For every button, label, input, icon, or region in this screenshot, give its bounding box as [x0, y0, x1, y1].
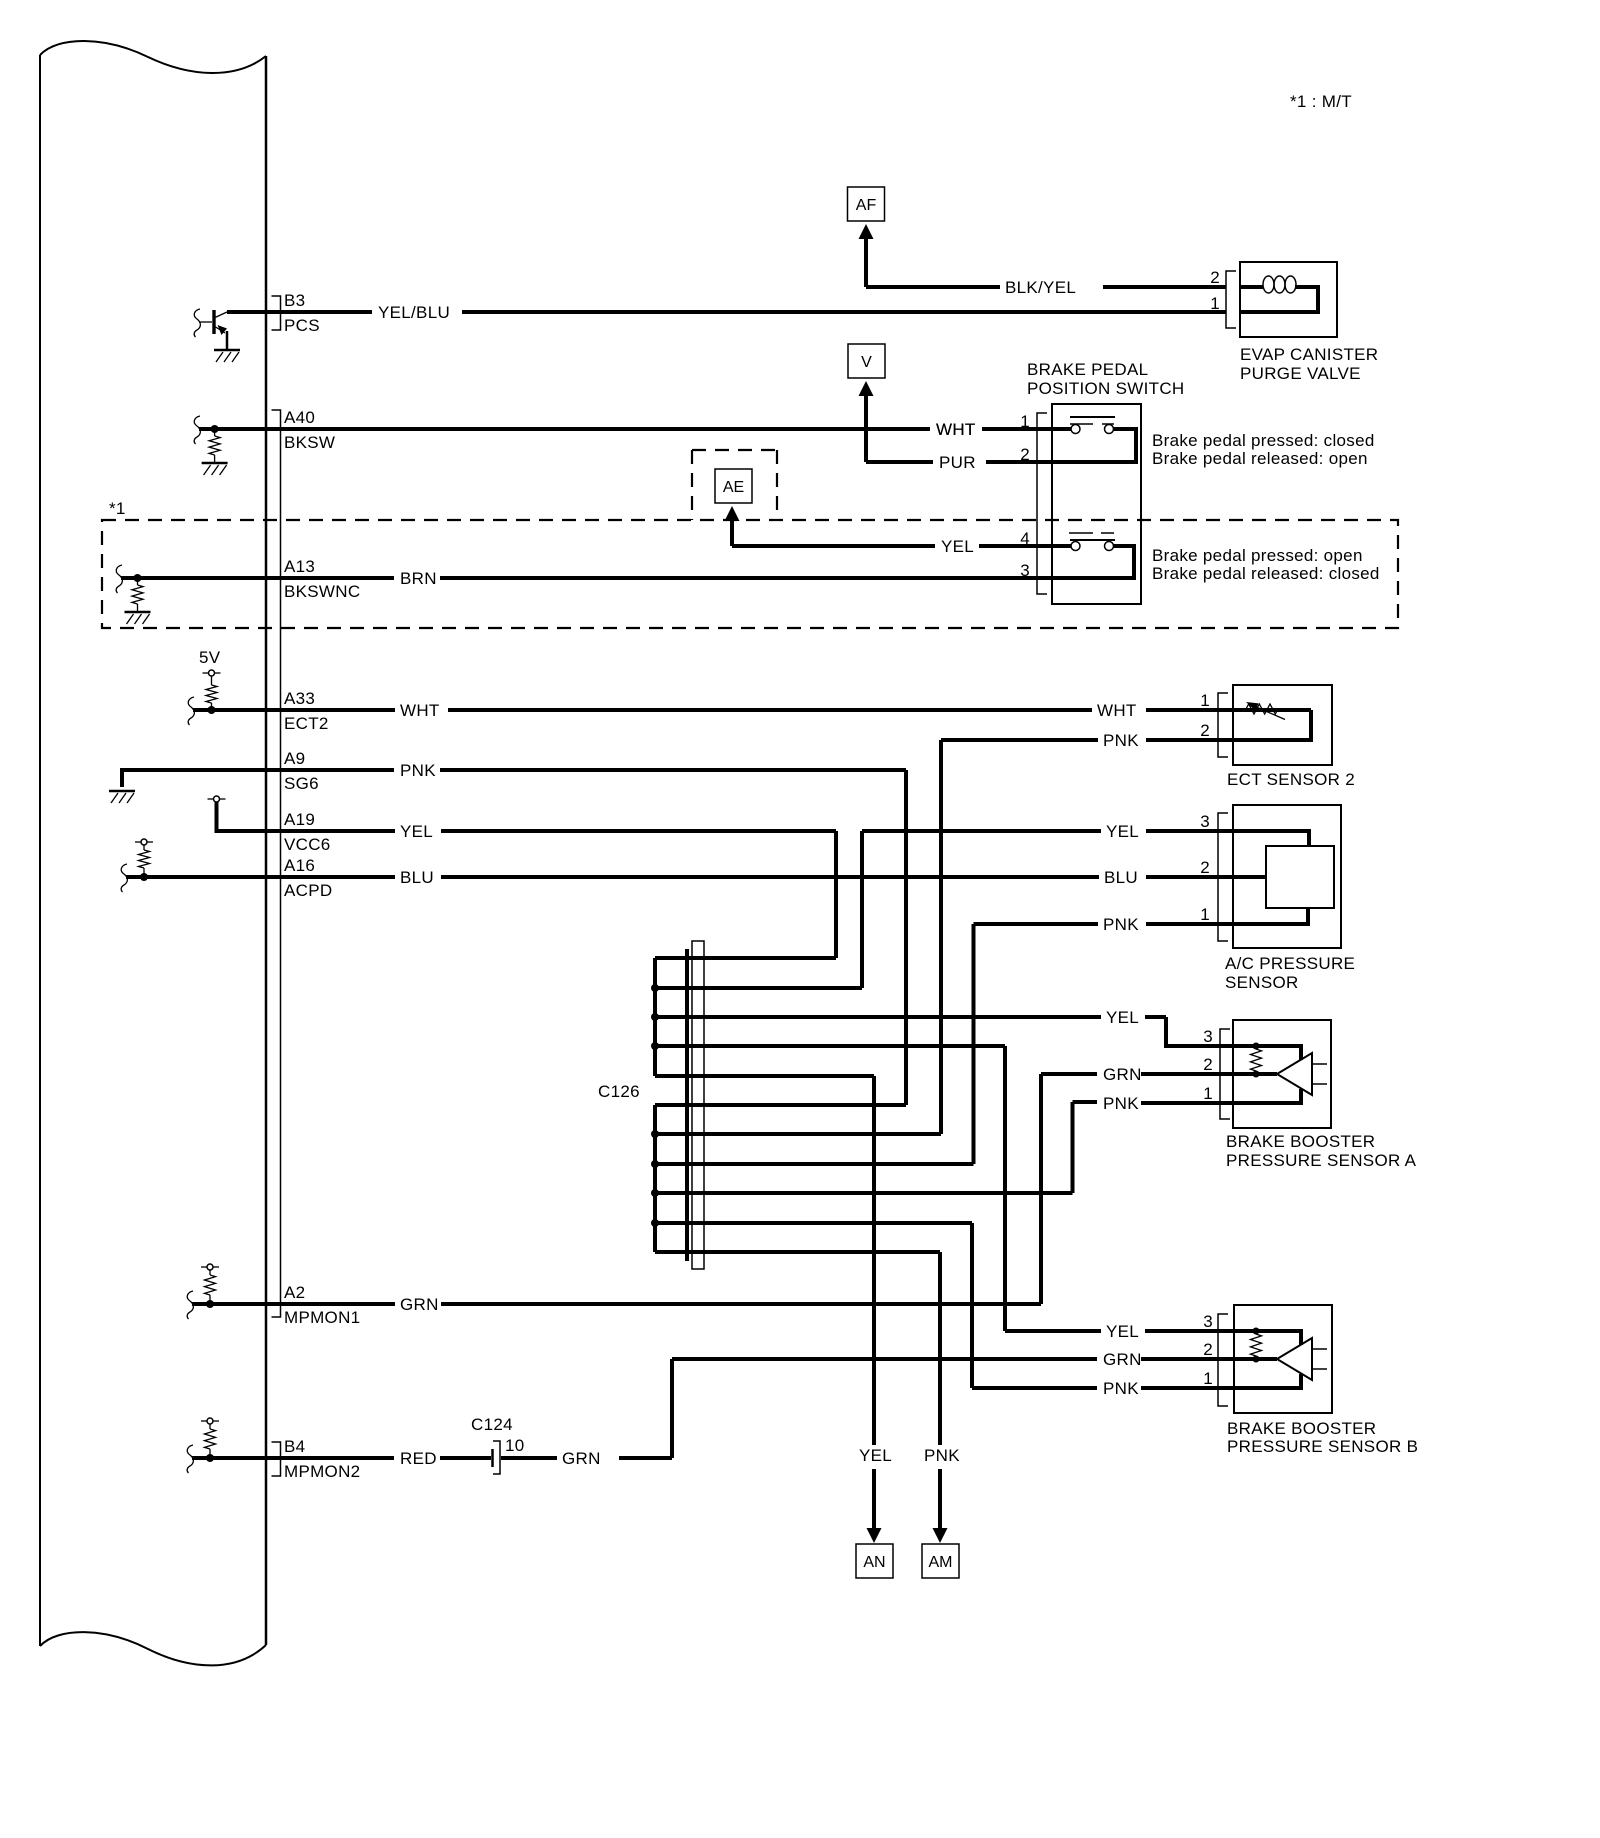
wire YEL from C126 to brake booster pressure sensor B pin 3 — [655, 1046, 1234, 1331]
label BRN — [400, 569, 437, 588]
wire YEL from C126 to brake booster pressure sensor A pin 3 — [655, 1017, 1233, 1046]
svg-text:PCS: PCS — [284, 316, 320, 335]
wire stub C126 to A9 PNK — [655, 1103, 906, 1107]
wire A13 BKSWNC BRN — [280, 576, 1070, 580]
svg-text:PRESSURE SENSOR A: PRESSURE SENSOR A — [1226, 1151, 1417, 1170]
svg-text:PUR: PUR — [939, 453, 976, 472]
svg-text:POSITION SWITCH: POSITION SWITCH — [1027, 379, 1185, 398]
svg-text:A40: A40 — [284, 408, 315, 427]
svg-text:1: 1 — [1200, 905, 1210, 924]
dashed enclosure around AE reference — [692, 450, 777, 520]
pin label A9 / SG6 — [284, 749, 319, 793]
note *1 : M/T — [1290, 92, 1352, 111]
svg-text:3: 3 — [1203, 1312, 1213, 1331]
svg-text:PNK: PNK — [1103, 915, 1139, 934]
note: upper contact behavior — [1152, 431, 1375, 468]
svg-text:*1: *1 — [109, 499, 126, 518]
svg-text:WHT: WHT — [400, 701, 440, 720]
label PUR — [939, 453, 976, 472]
label BLK/YEL — [1005, 278, 1076, 297]
svg-text:BRAKE PEDAL: BRAKE PEDAL — [1027, 360, 1148, 379]
svg-text:ECT2: ECT2 — [284, 714, 329, 733]
svg-text:AF: AF — [856, 197, 877, 214]
wire stub C126 to ECT sensor 2 PNK — [655, 1132, 941, 1136]
dashed enclosure *1 (M/T only circuit) — [102, 520, 1398, 628]
pull-up at A2 — [201, 1264, 219, 1304]
svg-text:A16: A16 — [284, 856, 315, 875]
wire PNK from A/C sensor pin 1 to C126 — [974, 924, 1234, 1164]
wire YEL from C126 down to AN reference — [655, 1076, 874, 1445]
wire stub C126 to A/C sensor YEL — [655, 986, 862, 990]
off-page reference AF — [848, 187, 885, 287]
svg-text:2: 2 — [1203, 1055, 1213, 1074]
svg-text:10: 10 — [505, 1436, 525, 1455]
label BRAKE PEDAL POSITION SWITCH — [1027, 360, 1185, 398]
pin label A33 / ECT2 — [284, 689, 329, 733]
svg-text:A33: A33 — [284, 689, 315, 708]
label WHT (ECT sensor side) — [1097, 701, 1137, 720]
svg-text:ECT SENSOR 2: ECT SENSOR 2 — [1227, 770, 1355, 789]
pin number 1 (EVAP valve) — [1210, 294, 1220, 313]
svg-text:YEL: YEL — [400, 822, 433, 841]
label YEL (A/C sensor side) — [1106, 822, 1139, 841]
svg-text:Brake pedal pressed: closed: Brake pedal pressed: closed — [1152, 431, 1375, 450]
wire PNK from C126 down to AM reference — [655, 1252, 940, 1445]
svg-text:ACPD: ACPD — [284, 881, 332, 900]
pin label A40 / BKSW — [284, 408, 335, 452]
pin label B4 / MPMON2 — [284, 1437, 360, 1481]
wire GRN from C124 to brake booster pressure sensor B pin 2 — [501, 1359, 1234, 1458]
svg-text:YEL/BLU: YEL/BLU — [378, 303, 450, 322]
pull-up resistor at A13 — [116, 565, 280, 612]
5V reference source at A33 — [199, 648, 221, 710]
svg-text:YEL: YEL — [1106, 1008, 1139, 1027]
svg-text:A13: A13 — [284, 557, 315, 576]
label YEL (A19) — [400, 822, 433, 841]
wire PUR from V node to switch pin 2 — [866, 460, 1037, 464]
svg-text:GRN: GRN — [562, 1449, 601, 1468]
svg-text:GRN: GRN — [1103, 1350, 1142, 1369]
brake booster pressure sensor B body — [1234, 1305, 1332, 1413]
svg-text:BLU: BLU — [1104, 868, 1138, 887]
svg-text:VCC6: VCC6 — [284, 835, 331, 854]
pin number 4 (switch) — [1020, 529, 1030, 548]
svg-text:1: 1 — [1210, 294, 1220, 313]
svg-text:PNK: PNK — [1103, 1094, 1139, 1113]
pin number 2 (EVAP valve) — [1210, 268, 1220, 287]
label GRN (booster B side) — [1103, 1350, 1142, 1369]
wire PNK from ECT sensor 2 pin 2 to C126 — [941, 740, 1233, 1134]
pull-up at A16 — [135, 839, 153, 877]
pin label A19 / VCC6 — [284, 810, 331, 854]
label EVAP CANISTER PURGE VALVE — [1240, 345, 1378, 383]
svg-text:V: V — [861, 354, 872, 371]
pin number 2 (booster sensor A) — [1203, 1055, 1213, 1074]
svg-text:BRN: BRN — [400, 569, 437, 588]
ground (A9 sensor ground) — [109, 791, 135, 803]
pin label A2 / MPMON1 — [284, 1283, 360, 1327]
svg-text:AM: AM — [929, 1554, 953, 1571]
label YEL/BLU — [378, 303, 450, 322]
pin number 2 (ECT sensor 2) — [1200, 721, 1210, 740]
EVAP canister purge valve (solenoid) — [1240, 262, 1337, 337]
connector bracket of EVAP canister purge valve — [1226, 271, 1236, 328]
long connector bracket pins A40..A2 — [272, 410, 281, 1317]
svg-text:SG6: SG6 — [284, 774, 319, 793]
svg-text:*1 : M/T: *1 : M/T — [1290, 92, 1352, 111]
brake booster pressure sensor A body — [1233, 1020, 1331, 1128]
off-page reference AN — [856, 1469, 893, 1578]
wire stub C126 to A/C sensor PNK — [655, 1162, 974, 1166]
pin number 2 (booster sensor B) — [1203, 1340, 1213, 1359]
svg-text:EVAP CANISTER: EVAP CANISTER — [1240, 345, 1378, 364]
junction bus (lower wire group at C126) — [651, 1105, 659, 1252]
connector bracket of brake booster pressure sensor B — [1218, 1314, 1228, 1406]
wire A33 ECT2 WHT — [188, 697, 1233, 725]
svg-text:Brake pedal released: open: Brake pedal released: open — [1152, 449, 1368, 468]
svg-text:PRESSURE SENSOR B: PRESSURE SENSOR B — [1227, 1437, 1418, 1456]
svg-text:YEL: YEL — [1106, 1322, 1139, 1341]
wire GRN from A2 to booster sensor A pin 2 — [1141, 1072, 1233, 1076]
svg-text:1: 1 — [1200, 691, 1210, 710]
label BRAKE BOOSTER PRESSURE SENSOR B — [1227, 1419, 1418, 1456]
wire YEL from AE node to switch pin 4 — [732, 544, 1037, 548]
pin label A16 / ACPD — [284, 856, 332, 900]
label PNK (booster A side) — [1103, 1094, 1139, 1113]
wire B4 MPMON2 RED — [187, 1445, 491, 1473]
connector bracket of A/C pressure sensor — [1218, 813, 1228, 941]
svg-text:BLK/YEL: BLK/YEL — [1005, 278, 1076, 297]
switch contact (normally closed, pins 4-3) — [1037, 533, 1134, 578]
svg-text:MPMON1: MPMON1 — [284, 1308, 360, 1327]
label ECT SENSOR 2 — [1227, 770, 1355, 789]
svg-text:A9: A9 — [284, 749, 305, 768]
wire A40 BKSW WHT — [280, 427, 1070, 431]
svg-text:3: 3 — [1020, 561, 1030, 580]
connector bracket of brake booster pressure sensor A — [1220, 1029, 1230, 1119]
pin number 3 (A/C sensor) — [1200, 812, 1210, 831]
svg-text:AE: AE — [723, 479, 744, 496]
svg-text:YEL: YEL — [941, 537, 974, 556]
svg-text:A19: A19 — [284, 810, 315, 829]
svg-text:3: 3 — [1200, 812, 1210, 831]
pin label B3 / PCS — [284, 291, 320, 335]
svg-text:Brake pedal released: closed: Brake pedal released: closed — [1152, 564, 1380, 583]
wire PNK from C126 to brake booster pressure sensor A pin 1 — [655, 1102, 1233, 1193]
pin number 3 (booster sensor B) — [1203, 1312, 1213, 1331]
svg-text:1: 1 — [1203, 1084, 1213, 1103]
svg-text:C126: C126 — [598, 1082, 640, 1101]
svg-text:3: 3 — [1203, 1027, 1213, 1046]
svg-text:WHT: WHT — [936, 420, 976, 439]
svg-text:YEL: YEL — [1106, 822, 1139, 841]
off-page reference V — [848, 344, 885, 462]
label PNK (ECT sensor side) — [1103, 731, 1139, 750]
connector C126 — [598, 941, 704, 1269]
svg-text:PURGE VALVE: PURGE VALVE — [1240, 364, 1361, 383]
label YEL (booster B side) — [1106, 1322, 1139, 1341]
svg-text:1: 1 — [1020, 412, 1030, 431]
wire A9 SG6 PNK — [122, 770, 906, 1105]
label PNK (A9) — [400, 761, 436, 780]
svg-text:MPMON2: MPMON2 — [284, 1462, 360, 1481]
ground (A40 resistor) — [202, 463, 228, 475]
switch contact (normally open, pins 1-2) — [1037, 417, 1136, 462]
svg-text:PNK: PNK — [924, 1446, 960, 1465]
label A/C PRESSURE SENSOR — [1225, 954, 1355, 992]
svg-text:C124: C124 — [471, 1415, 513, 1434]
svg-text:2: 2 — [1200, 721, 1210, 740]
label *1 — [109, 499, 126, 518]
svg-text:SENSOR: SENSOR — [1225, 973, 1299, 992]
pin number 3 (booster sensor A) — [1203, 1027, 1213, 1046]
label GRN (after C124) — [562, 1449, 601, 1468]
note: lower contact behavior — [1152, 546, 1380, 583]
wire A16 ACPD BLU — [121, 864, 1233, 892]
wire A19 VCC6 YEL — [217, 802, 837, 958]
pin number 1 (booster sensor A) — [1203, 1084, 1213, 1103]
label BLU (A16 left) — [400, 868, 434, 887]
ECT sensor 2 (thermistor) — [1233, 685, 1332, 765]
label PNK (A/C sensor pin 1) — [1103, 915, 1139, 934]
connector bracket for pin B4 — [272, 1442, 281, 1476]
label GRN (booster A side) — [1103, 1065, 1142, 1084]
svg-text:BKSWNC: BKSWNC — [284, 582, 360, 601]
label PNK (booster B side) — [1103, 1379, 1139, 1398]
wire BLK/YEL to EVAP canister purge valve pin 2 — [866, 285, 1226, 289]
svg-text:BRAKE BOOSTER: BRAKE BOOSTER — [1227, 1419, 1376, 1438]
svg-text:5V: 5V — [199, 648, 221, 667]
transistor Q1 (PCS low-side driver inside ECM) — [194, 309, 227, 350]
brake pedal position switch body — [1052, 404, 1141, 604]
svg-text:2: 2 — [1210, 268, 1220, 287]
wire YEL from A/C sensor pin 3 to C126 — [862, 831, 1233, 988]
ECM/PCM body outline (wavy-ended rectangle) — [40, 41, 266, 1665]
label BRAKE BOOSTER PRESSURE SENSOR A — [1226, 1132, 1417, 1170]
svg-text:GRN: GRN — [400, 1295, 439, 1314]
junction bus (upper wire group at C126) — [651, 958, 659, 1076]
pin number 1 (switch) — [1020, 412, 1030, 431]
label GRN (A2) — [400, 1295, 439, 1314]
ground (transistor emitter) — [214, 350, 240, 362]
label WHT (A40) — [936, 420, 976, 439]
label WHT (switch pin 1) — [936, 420, 976, 439]
svg-text:B3: B3 — [284, 291, 305, 310]
connector bracket for pin B3 — [272, 296, 281, 330]
svg-text:Brake pedal pressed: open: Brake pedal pressed: open — [1152, 546, 1363, 565]
pin number 2 (A/C sensor) — [1200, 858, 1210, 877]
svg-text:1: 1 — [1203, 1369, 1213, 1388]
svg-text:WHT: WHT — [1097, 701, 1137, 720]
pin number 3 (switch) — [1020, 561, 1030, 580]
connector bracket of brake pedal position switch — [1037, 413, 1047, 594]
label RED (B4) — [400, 1449, 437, 1468]
pin label A13 / BKSWNC — [284, 557, 360, 601]
connector C124 pin 10 — [471, 1415, 525, 1474]
label WHT (A33 left) — [400, 701, 440, 720]
svg-text:BKSW: BKSW — [284, 433, 335, 452]
svg-text:A/C PRESSURE: A/C PRESSURE — [1225, 954, 1355, 973]
pin number 1 (ECT sensor 2) — [1200, 691, 1210, 710]
connector bracket of ECT sensor 2 — [1218, 693, 1228, 757]
svg-text:YEL: YEL — [859, 1446, 892, 1465]
pull-up at B4 — [201, 1418, 219, 1458]
label YEL (switch pin 4) — [941, 537, 974, 556]
A/C pressure sensor body — [1233, 805, 1341, 948]
label PNK (to AM) — [924, 1446, 960, 1465]
svg-text:2: 2 — [1200, 858, 1210, 877]
label BLU (A/C sensor side) — [1104, 868, 1138, 887]
ground (A13 resistor) — [125, 612, 151, 624]
sensor voltage source at A19 — [208, 796, 226, 802]
svg-text:PNK: PNK — [400, 761, 436, 780]
svg-text:RED: RED — [400, 1449, 437, 1468]
svg-text:GRN: GRN — [1103, 1065, 1142, 1084]
svg-text:AN: AN — [863, 1554, 885, 1571]
pin number 2 (switch) — [1020, 445, 1030, 464]
pull-up resistor at A40 — [194, 416, 280, 463]
svg-text:PNK: PNK — [1103, 731, 1139, 750]
svg-text:2: 2 — [1203, 1340, 1213, 1359]
svg-text:B4: B4 — [284, 1437, 305, 1456]
pin number 1 (booster sensor B) — [1203, 1369, 1213, 1388]
svg-text:A2: A2 — [284, 1283, 305, 1302]
off-page reference AE — [715, 469, 752, 546]
off-page reference AM — [922, 1469, 959, 1578]
svg-text:PNK: PNK — [1103, 1379, 1139, 1398]
pin number 1 (A/C sensor) — [1200, 905, 1210, 924]
wire stub C126 to A19 YEL — [655, 956, 836, 960]
wire PNK from C126 to brake booster pressure sensor B pin 1 — [655, 1223, 1234, 1388]
wire B3 PCS YEL/BLU — [227, 310, 1226, 314]
svg-text:BRAKE BOOSTER: BRAKE BOOSTER — [1226, 1132, 1375, 1151]
wire A2 MPMON1 GRN — [187, 1074, 1097, 1319]
label YEL (booster A side) — [1106, 1008, 1139, 1027]
svg-text:BLU: BLU — [400, 868, 434, 887]
label YEL (to AN) — [859, 1446, 892, 1465]
